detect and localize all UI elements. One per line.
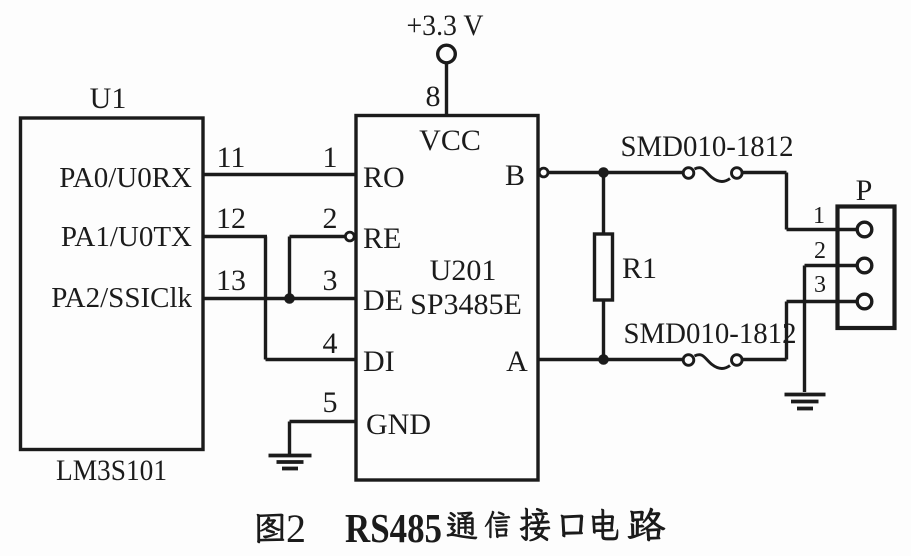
svg-text:GND: GND: [366, 408, 431, 441]
svg-text:3: 3: [323, 264, 338, 297]
svg-text:A: A: [506, 345, 528, 378]
svg-text:SMD010-1812: SMD010-1812: [624, 317, 797, 350]
svg-text:P: P: [856, 174, 873, 207]
svg-text:PA0/U0RX: PA0/U0RX: [59, 162, 192, 194]
svg-text:3: 3: [814, 272, 826, 298]
svg-text:13: 13: [216, 264, 246, 297]
svg-text:2: 2: [814, 238, 826, 264]
svg-text:DE: DE: [363, 284, 403, 317]
svg-text:1: 1: [323, 141, 338, 174]
svg-text:8: 8: [426, 80, 441, 113]
svg-text:4: 4: [323, 327, 338, 360]
svg-text:1: 1: [813, 203, 825, 229]
svg-text:LM3S101: LM3S101: [56, 454, 167, 487]
svg-text:+3.3 V: +3.3 V: [407, 9, 484, 42]
svg-text:R1: R1: [622, 252, 657, 285]
svg-text:RS485: RS485: [345, 505, 442, 551]
svg-text:12: 12: [216, 202, 246, 235]
svg-text:B: B: [505, 159, 525, 192]
svg-text:PA2/SSIClk: PA2/SSIClk: [51, 282, 192, 314]
svg-text:2: 2: [323, 202, 338, 235]
svg-text:VCC: VCC: [419, 124, 481, 157]
svg-text:U1: U1: [90, 82, 127, 115]
svg-text:RO: RO: [363, 161, 405, 194]
svg-text:11: 11: [217, 141, 246, 174]
svg-text:RE: RE: [363, 222, 401, 255]
svg-text:DI: DI: [363, 345, 395, 378]
svg-text:5: 5: [323, 386, 338, 419]
svg-text:PA1/U0TX: PA1/U0TX: [61, 221, 192, 253]
svg-text:U201: U201: [430, 254, 497, 287]
svg-text:2: 2: [286, 506, 306, 551]
svg-text:SP3485E: SP3485E: [410, 288, 522, 321]
svg-text:SMD010-1812: SMD010-1812: [621, 130, 794, 163]
